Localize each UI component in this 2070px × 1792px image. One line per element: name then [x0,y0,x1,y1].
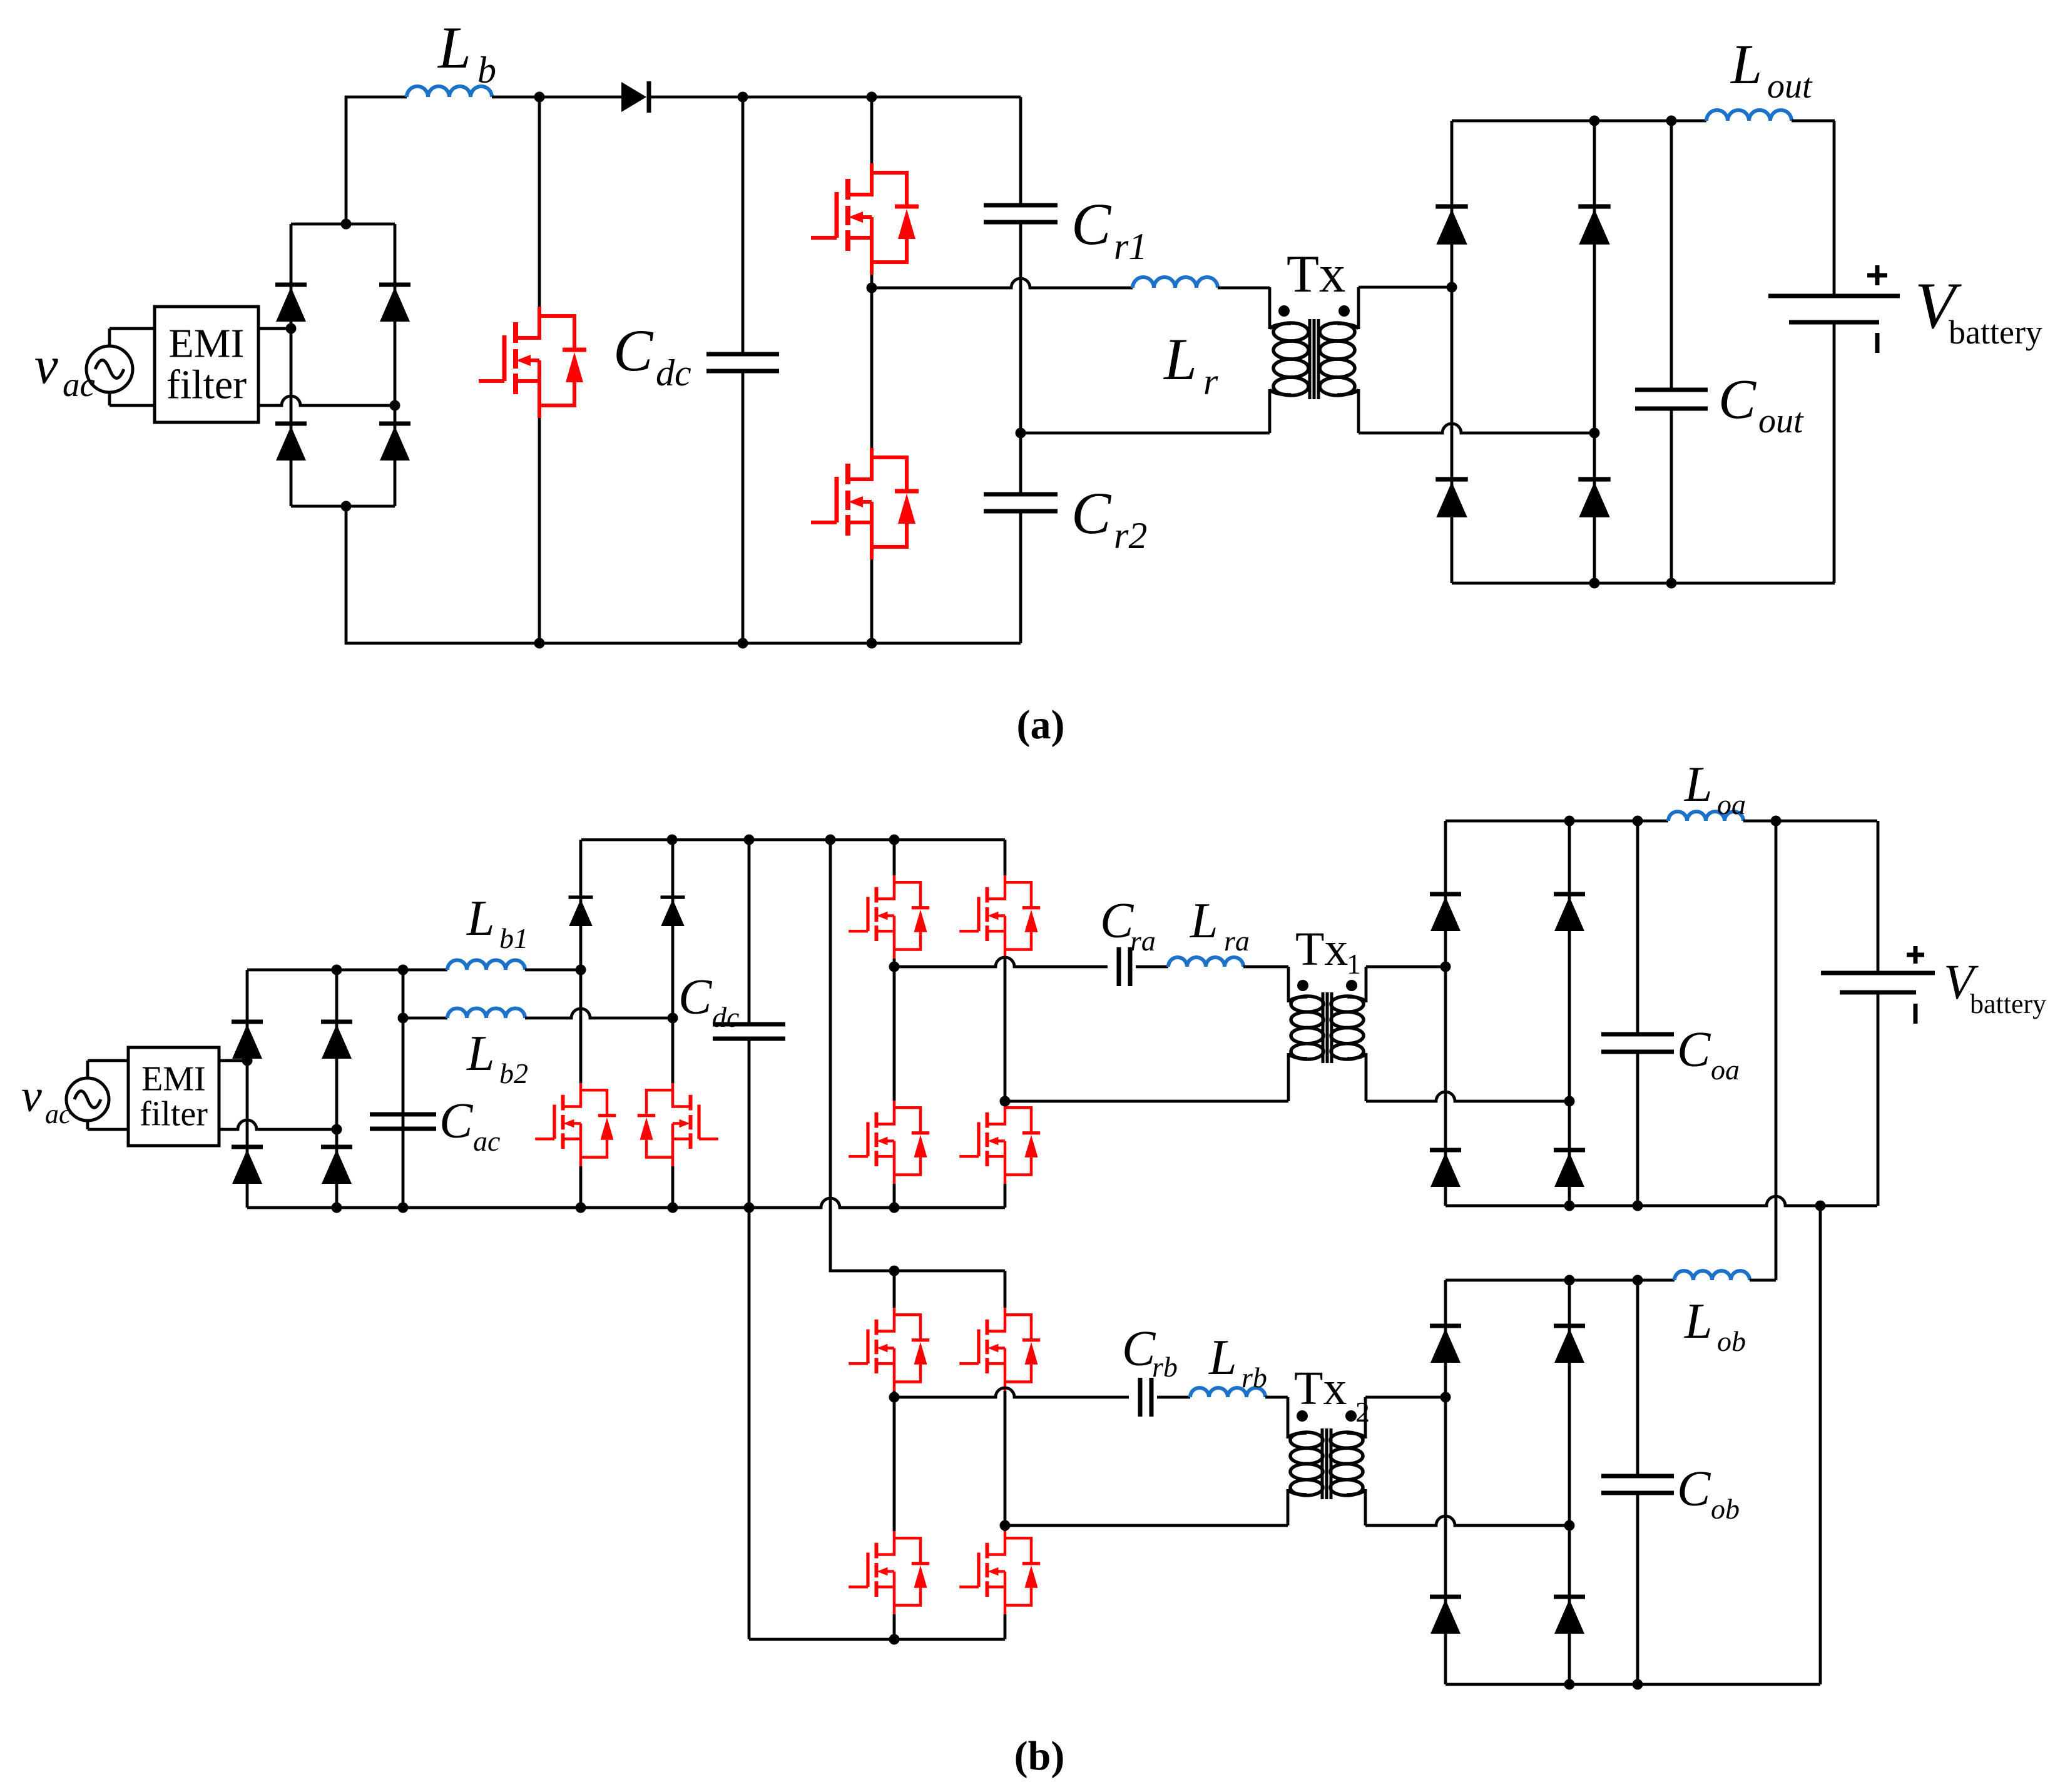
svg-text:ra: ra [1224,925,1250,957]
svg-text:C: C [1071,191,1112,257]
svg-text:L: L [1163,326,1197,392]
svg-text:r: r [1203,361,1218,402]
svg-text:ac: ac [45,1099,71,1129]
svg-text:oa: oa [1711,1054,1740,1086]
svg-text:L: L [1730,34,1762,96]
svg-text:EMI: EMI [141,1059,206,1098]
svg-text:Tx: Tx [1287,245,1345,303]
svg-text:ra: ra [1130,925,1156,957]
svg-text:L: L [1208,1330,1237,1385]
svg-text:C: C [1122,1321,1156,1377]
svg-text:battery: battery [1970,989,2046,1019]
svg-text:filter: filter [140,1094,208,1133]
svg-text:C: C [1071,480,1112,546]
svg-text:C: C [1100,893,1134,949]
svg-text:C: C [1718,369,1756,430]
svg-text:filter: filter [166,362,247,408]
svg-text:ob: ob [1717,1325,1746,1357]
svg-text:b1: b1 [499,922,528,954]
svg-text:ob: ob [1711,1493,1740,1525]
svg-text:battery: battery [1949,313,2042,351]
svg-text:C: C [1677,1462,1711,1517]
svg-text:ac: ac [473,1125,500,1157]
svg-text:L: L [1684,1294,1713,1349]
svg-text:b2: b2 [499,1057,528,1089]
svg-text:b: b [477,49,496,91]
svg-text:L: L [1684,757,1713,812]
svg-text:dc: dc [712,1001,739,1033]
svg-text:L: L [466,891,495,946]
svg-text:ac: ac [63,365,95,404]
svg-text:C: C [678,970,713,1025]
svg-text:r1: r1 [1114,226,1147,267]
svg-text:Tx: Tx [1295,923,1348,975]
svg-text:out: out [1758,402,1804,440]
svg-text:oa: oa [1717,788,1746,820]
svg-text:v: v [34,336,58,395]
svg-text:(a): (a) [1017,702,1065,748]
svg-text:2: 2 [1355,1396,1370,1428]
svg-text:(b): (b) [1014,1733,1065,1779]
svg-text:L: L [466,1026,495,1081]
svg-text:L: L [1190,893,1218,949]
svg-text:rb: rb [1241,1362,1267,1393]
svg-text:v: v [21,1071,42,1122]
svg-text:L: L [437,14,471,81]
svg-text:rb: rb [1152,1351,1178,1383]
svg-text:dc: dc [656,352,691,394]
svg-text:out: out [1767,67,1813,106]
svg-text:Tx: Tx [1294,1362,1347,1415]
svg-text:1: 1 [1347,948,1361,980]
svg-text:C: C [1677,1022,1711,1077]
svg-text:C: C [439,1094,474,1149]
svg-text:r2: r2 [1114,515,1147,556]
svg-text:C: C [613,317,654,384]
svg-text:EMI: EMI [169,321,245,367]
